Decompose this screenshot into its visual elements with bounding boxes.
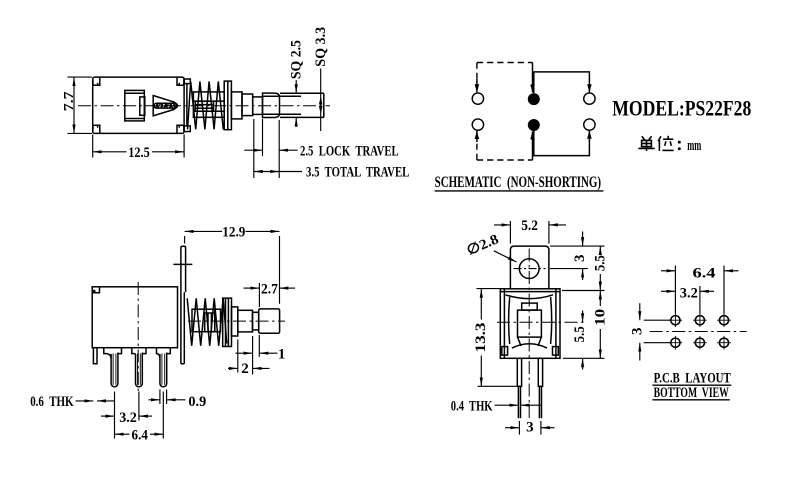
svg-text:5.5: 5.5: [592, 255, 608, 271]
svg-text:3.2: 3.2: [680, 286, 698, 302]
svg-text:5.2: 5.2: [521, 218, 538, 234]
svg-text:12.9: 12.9: [222, 225, 245, 241]
svg-text:2: 2: [241, 361, 249, 377]
svg-text:13.3: 13.3: [473, 323, 489, 353]
svg-text:2.7: 2.7: [261, 281, 278, 297]
svg-text:1: 1: [278, 347, 286, 363]
svg-text:3: 3: [629, 328, 645, 336]
svg-text:BOTTOM VIEW: BOTTOM VIEW: [654, 385, 729, 401]
svg-text:3.2: 3.2: [119, 410, 137, 426]
svg-text:12.5: 12.5: [128, 145, 150, 161]
svg-text:6.4: 6.4: [132, 428, 149, 444]
svg-text:6.4: 6.4: [693, 265, 717, 281]
svg-text:MODEL:PS22F28: MODEL:PS22F28: [612, 95, 751, 120]
svg-text:SQ 2.5: SQ 2.5: [289, 40, 305, 79]
svg-text:0.9: 0.9: [188, 394, 206, 410]
svg-text:3: 3: [572, 254, 588, 262]
svg-text:10: 10: [592, 309, 608, 326]
svg-text:5.5: 5.5: [572, 326, 588, 342]
svg-text:3.5 TOTAL TRAVEL: 3.5 TOTAL TRAVEL: [306, 165, 409, 181]
svg-text:mm: mm: [687, 138, 701, 154]
svg-text:3: 3: [526, 419, 534, 435]
svg-text:0.4 THK: 0.4 THK: [451, 398, 493, 414]
svg-text:SQ 3.3: SQ 3.3: [313, 27, 329, 67]
svg-text:SCHEMATIC (NON-SHORTING): SCHEMATIC (NON-SHORTING): [435, 174, 601, 191]
svg-text:2.5 LOCK TRAVEL: 2.5 LOCK TRAVEL: [300, 143, 399, 159]
svg-text:7.7: 7.7: [62, 92, 77, 112]
svg-text:0.6 THK: 0.6 THK: [30, 394, 74, 410]
svg-text:∅2.8: ∅2.8: [465, 232, 501, 259]
